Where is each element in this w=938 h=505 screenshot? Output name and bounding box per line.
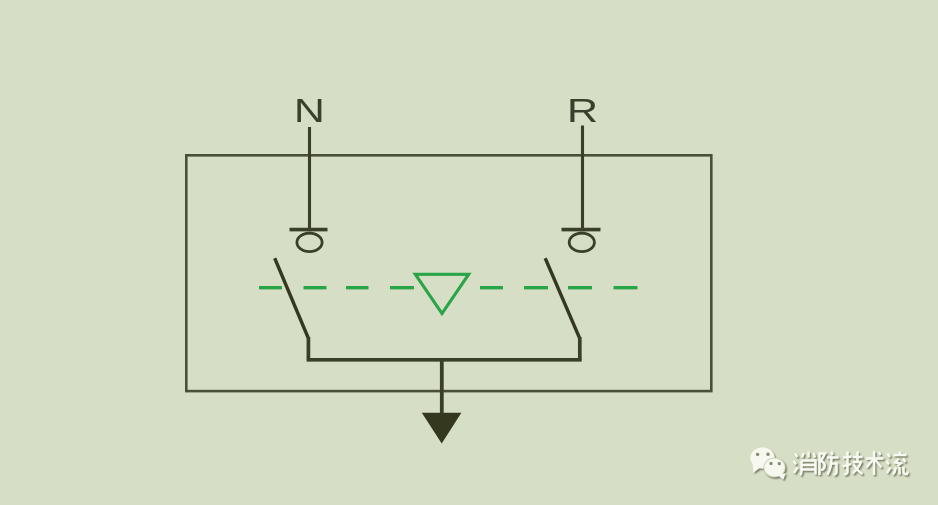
terminal label R: [567, 93, 598, 130]
common bus wire: [307, 358, 582, 362]
watermark text 消防技术流: [794, 451, 908, 475]
liquid level dashed line (left segment): [259, 286, 414, 289]
watermark wechat icon small bubble: [764, 458, 786, 480]
fixed contact circle R: [569, 233, 594, 251]
fixed contact bar R: [562, 228, 601, 232]
output arrow head: [422, 413, 462, 444]
wire from N terminal: [308, 127, 311, 229]
watermark wechat icon big bubble: [750, 447, 774, 472]
watermark small bubble eyes: [769, 462, 781, 465]
fixed contact bar N: [290, 228, 328, 232]
float level triangle indicator: [415, 274, 468, 313]
enclosure box (switch body): [186, 155, 711, 391]
switch blade S2 (R side): [545, 258, 580, 339]
fixed contact circle N: [297, 233, 322, 251]
wire S2 blade to common bus: [578, 337, 582, 360]
wire S1 blade to common bus: [307, 337, 311, 360]
terminal label N: [294, 93, 325, 130]
switch blade S1 (N side): [275, 258, 309, 339]
svg-text:N: N: [294, 93, 325, 130]
wire from R terminal: [581, 126, 584, 230]
common output wire down: [440, 360, 444, 416]
svg-text:R: R: [567, 93, 598, 130]
watermark big bubble eyes: [756, 453, 770, 457]
liquid level dashed line (right segment): [480, 286, 638, 289]
